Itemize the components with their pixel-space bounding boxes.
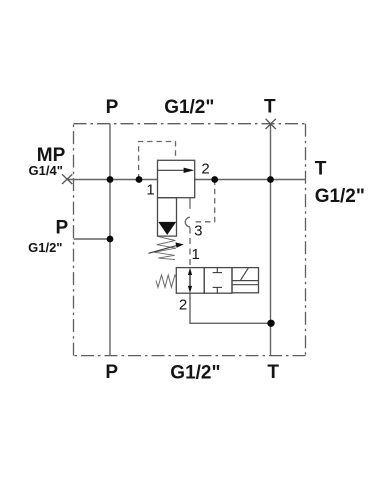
solenoid actuator box — [232, 268, 259, 293]
svg-text:P: P — [105, 362, 118, 383]
dashed drain line down to 2-way valve port 1 — [189, 228, 191, 268]
svg-text:2: 2 — [179, 296, 187, 313]
pressure reducing valve main box — [158, 160, 195, 197]
wire valve outlet to right border — [195, 179, 306, 181]
flow arrow inside reducing valve — [158, 169, 186, 171]
2-way valve body right position box — [204, 268, 232, 294]
2-way valve body left position box — [176, 268, 204, 294]
double-headed flow arrow in left position — [189, 271, 191, 290]
svg-text:G1/2": G1/2" — [170, 363, 220, 384]
svg-text:1: 1 — [146, 182, 154, 199]
node dot outlet at T line — [267, 176, 274, 183]
node dot pilot tap — [136, 176, 143, 183]
svg-text:T: T — [267, 362, 279, 383]
svg-text:G1/2": G1/2" — [164, 97, 214, 118]
wire P port G1/2 stub — [74, 238, 111, 240]
svg-text:P: P — [106, 97, 119, 118]
svg-text:2: 2 — [201, 161, 209, 178]
svg-text:G1/2": G1/2" — [315, 186, 365, 207]
svg-text:3: 3 — [194, 223, 202, 240]
crossing hop arc on drain line — [185, 217, 190, 227]
pilot dashed line from inlet node to spring chamber — [139, 142, 176, 180]
node dot valve return at T line — [267, 320, 274, 327]
plug X on top T port — [266, 119, 276, 129]
svg-text:P: P — [55, 218, 68, 239]
wire P vertical line — [109, 124, 111, 356]
node dot inlet at P line — [107, 176, 114, 183]
drain stub from reducing valve — [189, 198, 191, 209]
return spring on left of 2-way valve — [156, 275, 176, 287]
svg-text:G1/4": G1/4" — [29, 163, 63, 178]
wire T vertical line — [270, 124, 272, 356]
wire lower valve port 2 to T line — [190, 293, 271, 323]
solenoid diagonal slash — [240, 268, 248, 281]
svg-text:G1/2": G1/2" — [28, 240, 62, 255]
solenoid internal lines — [232, 280, 259, 282]
svg-text:1: 1 — [192, 246, 200, 263]
node dot P port G1/2 — [107, 236, 114, 243]
blocked port symbols in right position — [213, 268, 222, 294]
plug X on MP port — [62, 174, 72, 184]
enclosure border (dash-dot subplate boundary) — [74, 124, 306, 356]
check valve narrow box — [158, 198, 177, 236]
adjustment arrow through spring — [149, 245, 179, 253]
svg-text:T: T — [315, 159, 327, 180]
pilot dashed line from outlet node down — [194, 180, 215, 222]
svg-text:T: T — [264, 97, 276, 118]
node dot outlet pilot tap — [211, 176, 218, 183]
check valve poppet triangle — [158, 222, 176, 235]
wire MP inlet horizontal line — [66, 179, 158, 181]
adjustable spring zigzag — [154, 236, 176, 259]
